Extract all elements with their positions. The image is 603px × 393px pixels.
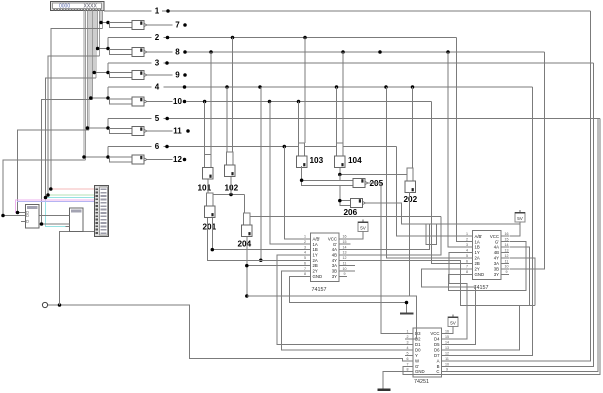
- wire to S204: [244, 195, 246, 214]
- wire display pin: [92, 10, 94, 99]
- wire net4 to U1 2A: [260, 87, 262, 260]
- wire net4 to S102: [226, 87, 228, 152]
- wire net5 to U3 C: [450, 119, 598, 372]
- U1 74157 pin 16 VCC: [339, 238, 347, 240]
- switch 206: [340, 201, 351, 206]
- junction net 2: [231, 36, 235, 40]
- svg-text:16: 16: [445, 329, 449, 333]
- svg-text:11: 11: [343, 261, 347, 265]
- svg-text:1Y: 1Y: [475, 250, 480, 255]
- wire green: [48, 194, 95, 196]
- junction: [405, 301, 409, 305]
- junction net 3: [165, 61, 169, 65]
- power +5V symbol: [358, 222, 368, 232]
- wire stub U1 G: [347, 243, 351, 245]
- U2 74157 pin 15 G': [501, 241, 509, 243]
- wire staircase: [3, 160, 86, 216]
- svg-text:4B: 4B: [494, 250, 499, 255]
- svg-text:1: 1: [407, 329, 409, 333]
- comparator A2: [70, 208, 84, 232]
- switch S10 body: [110, 99, 133, 104]
- junction net 4: [411, 85, 415, 89]
- switch 104: [337, 143, 343, 156]
- junction: [46, 193, 50, 197]
- svg-text:5V: 5V: [450, 321, 457, 326]
- wire net8 to U2 3B: [510, 52, 545, 269]
- wire display pin: [102, 10, 104, 28]
- svg-text:5V: 5V: [517, 216, 524, 221]
- wire display pin: [98, 10, 100, 56]
- svg-text:9: 9: [344, 272, 346, 276]
- switch S8 body: [110, 49, 133, 54]
- svg-text:4: 4: [407, 346, 409, 350]
- svg-text:A/B': A/B': [475, 234, 483, 239]
- svg-text:1Y: 1Y: [313, 253, 318, 258]
- junction: [300, 179, 304, 183]
- svg-text:9: 9: [175, 71, 180, 80]
- svg-text:14: 14: [505, 243, 509, 247]
- junction: [245, 264, 249, 268]
- junction net 8: [209, 50, 213, 54]
- wire bus to U3 D6: [450, 306, 520, 351]
- junction: [99, 21, 103, 25]
- U3 74251 pin 8 GND: [405, 371, 413, 373]
- wire S202 down: [409, 192, 411, 296]
- net 9 wire: [147, 74, 173, 76]
- U2 74157 pin 3 1B: [465, 246, 473, 248]
- U3 74251 pin 11 A: [442, 360, 450, 362]
- svg-text:1: 1: [304, 235, 306, 239]
- junction net 9: [183, 73, 187, 77]
- wire net10 to S101: [204, 102, 206, 155]
- svg-text:13: 13: [505, 248, 509, 252]
- U1 74157 pin 9 3Y: [339, 275, 347, 277]
- junction net 8: [446, 50, 450, 54]
- svg-text:2Y: 2Y: [313, 269, 318, 274]
- wire U1 4Y: [347, 260, 535, 305]
- switch S11 body: [110, 128, 133, 133]
- wire switch input: [94, 72, 109, 74]
- wire net8 to S104: [342, 52, 344, 143]
- junction net 8: [378, 50, 382, 54]
- junction net 4: [384, 85, 388, 89]
- svg-text:2Y: 2Y: [475, 267, 480, 272]
- wire net6 to U2 A/B: [397, 147, 465, 237]
- U2 74157 pin 12 4Y: [501, 257, 509, 259]
- U1 74157 pin 3 1B: [303, 249, 311, 251]
- net 5 left drop wire: [107, 119, 109, 129]
- junction net 2: [303, 36, 307, 40]
- svg-text:G': G': [333, 242, 337, 247]
- U1 74157 pin 1 A/B': [303, 238, 311, 240]
- junction: [40, 222, 44, 226]
- U1 74157 pin 11 3A: [339, 265, 347, 267]
- svg-text:11: 11: [445, 357, 449, 361]
- U3 74251 pin 7 G': [405, 366, 413, 368]
- switch 103: [299, 143, 305, 156]
- svg-text:6: 6: [407, 357, 409, 361]
- svg-text:4Y: 4Y: [494, 256, 499, 261]
- junction net 10: [268, 100, 272, 104]
- IC U3 74251 body: [413, 328, 442, 377]
- svg-text:15: 15: [505, 238, 509, 242]
- switch 204: [244, 213, 250, 225]
- svg-text:GND: GND: [415, 369, 425, 374]
- junction: [106, 126, 110, 130]
- svg-text:1A: 1A: [313, 242, 318, 247]
- U1 74157 pin 4 1Y: [303, 254, 311, 256]
- wire net10 to S103: [298, 102, 300, 144]
- svg-text:VCC: VCC: [490, 234, 499, 239]
- net 2 left drop wire: [107, 38, 109, 49]
- junction net 4: [335, 85, 339, 89]
- svg-text:GND: GND: [475, 272, 485, 277]
- ground U1: [400, 313, 414, 315]
- switch S9 body: [110, 72, 133, 77]
- wire U1 3A stub: [347, 265, 355, 267]
- svg-text:10: 10: [173, 97, 182, 106]
- wire net4 to S202: [412, 87, 414, 168]
- wire A1 to A2: [39, 223, 70, 225]
- svg-text:5: 5: [466, 254, 468, 258]
- wire display pin: [88, 10, 90, 130]
- wire staircase: [48, 56, 99, 195]
- wire red: [51, 188, 95, 190]
- switch 205: [302, 180, 354, 185]
- junction: [106, 155, 110, 159]
- U1 74157 pin 15 G': [339, 243, 347, 245]
- svg-text:1B: 1B: [475, 245, 480, 250]
- wire bus to A2: [3, 215, 21, 217]
- U1 74157 pin 2 1A: [303, 243, 311, 245]
- wire switch input: [84, 156, 110, 158]
- svg-text:2B: 2B: [475, 261, 480, 266]
- switch S7 body: [110, 22, 133, 27]
- svg-text:4A: 4A: [332, 247, 337, 252]
- svg-text:8: 8: [304, 272, 306, 276]
- hex display U10: [50, 1, 104, 10]
- U2 74157 pin 1 A/B': [465, 235, 473, 237]
- wire net5 outer to U3 G: [403, 119, 600, 375]
- wire 205 output: [368, 182, 380, 184]
- svg-text:12: 12: [173, 155, 182, 164]
- junction net 2: [166, 36, 170, 40]
- svg-text:4A: 4A: [494, 245, 499, 250]
- junction: [106, 96, 110, 100]
- wire U1 2B: [247, 265, 303, 267]
- U2 74157 pin 5 2A: [465, 257, 473, 259]
- pin header J1: [95, 186, 109, 237]
- svg-text:7: 7: [175, 21, 180, 30]
- net 7 wire: [147, 24, 173, 26]
- wire weave: [426, 224, 436, 245]
- wire U1 4B: [347, 217, 441, 255]
- net 5 wire: [108, 118, 152, 120]
- U1 74157 pin 14 4A: [339, 249, 347, 251]
- wire net8 to S101: [210, 52, 212, 155]
- wire U2 1Y to U3 D4: [449, 253, 467, 339]
- wire switch input: [101, 22, 110, 24]
- junction: [58, 303, 62, 307]
- svg-text:9: 9: [506, 270, 508, 274]
- wire display pin: [100, 10, 102, 22]
- svg-text:3Y: 3Y: [494, 272, 499, 277]
- junction: [44, 196, 48, 200]
- svg-text:3A: 3A: [494, 261, 499, 266]
- svg-text:3B: 3B: [332, 269, 337, 274]
- net 4 wire: [108, 86, 152, 88]
- switch 102: [227, 152, 233, 165]
- U2 74157 pin 10 3B: [501, 268, 509, 270]
- svg-text:10: 10: [445, 362, 449, 366]
- svg-text:9: 9: [446, 367, 448, 371]
- wire display pin: [83, 10, 85, 157]
- junction net 5: [165, 117, 169, 121]
- net 4 left drop wire: [107, 87, 109, 98]
- switch 201: [207, 193, 213, 206]
- wire S204 to U1 2B: [246, 237, 248, 297]
- svg-text:D0: D0: [415, 348, 421, 353]
- svg-text:2A: 2A: [313, 258, 318, 263]
- U1 74157 pin 7 2Y: [303, 270, 311, 272]
- terminal T1: [42, 302, 47, 307]
- U3 74251 pin 16 VCC: [442, 333, 450, 335]
- net 12 wire: [147, 159, 173, 161]
- wire 205 drop to U3 D3: [381, 183, 405, 334]
- wire net4 to U2 2A: [387, 87, 465, 258]
- svg-text:14: 14: [343, 245, 347, 249]
- svg-text:15: 15: [445, 335, 449, 339]
- U2 74157 pin 16 VCC: [501, 235, 509, 237]
- svg-text:7: 7: [407, 362, 409, 366]
- svg-text:A/B': A/B': [313, 236, 321, 241]
- wire net2 to S102: [232, 38, 234, 153]
- U2 74157 pin 6 2B: [465, 263, 473, 265]
- svg-text:4Y: 4Y: [332, 258, 337, 263]
- U3 74251 pin 4 D0: [405, 349, 413, 351]
- junction: [92, 71, 96, 75]
- svg-text:205: 205: [370, 179, 384, 188]
- wire net2 to U2 1A: [457, 38, 465, 242]
- svg-text:6: 6: [466, 259, 468, 263]
- svg-text:16: 16: [505, 232, 509, 236]
- wire U3 VCC: [442, 326, 454, 334]
- wire display pin: [93, 10, 95, 72]
- wire net3 to U3 B: [450, 63, 594, 367]
- wire display pin: [85, 10, 87, 160]
- svg-text:74251: 74251: [414, 379, 429, 385]
- svg-text:8: 8: [466, 270, 468, 274]
- svg-text:D3: D3: [415, 331, 421, 336]
- U1 74157 pin 10 3B: [339, 270, 347, 272]
- junction: [16, 211, 20, 215]
- U3 74251 pin 9 C: [442, 371, 450, 373]
- svg-text:D7: D7: [434, 353, 440, 358]
- wire net10 to U2 2B: [432, 102, 465, 264]
- net 3 wire: [108, 62, 152, 64]
- U3 74251 pin 10 B: [442, 366, 450, 368]
- junction: [49, 187, 53, 191]
- wire A1 to A2 second: [39, 215, 70, 217]
- wire S201 to U1 2A: [207, 218, 302, 260]
- U3 74251 pin 5 Y: [405, 355, 413, 357]
- wire magenta: [16, 200, 95, 213]
- junction net 8: [183, 50, 187, 54]
- switch S12 body: [110, 157, 133, 162]
- U2 74157 pin 2 1A: [465, 241, 473, 243]
- svg-text:0000: 0000: [59, 4, 70, 10]
- wire switch input: [87, 127, 109, 129]
- svg-text:1: 1: [466, 232, 468, 236]
- svg-text:104: 104: [348, 156, 362, 165]
- wire U2 VCC: [510, 222, 521, 237]
- U2 74157 pin 11 3A: [501, 263, 509, 265]
- junction net 4: [225, 85, 229, 89]
- wire 206 route: [366, 203, 520, 224]
- junction net 8: [341, 50, 345, 54]
- U1 74157 pin 6 2B: [303, 265, 311, 267]
- wire S204 to U3 D2: [247, 296, 417, 339]
- wire U1 GND: [290, 276, 407, 313]
- switch 101: [205, 155, 211, 168]
- junction: [338, 199, 342, 203]
- svg-text:2: 2: [466, 238, 468, 242]
- U3 74251 pin 13 D6: [442, 349, 450, 351]
- svg-text:204: 204: [238, 240, 252, 249]
- wire staircase: [18, 130, 90, 213]
- svg-text:2: 2: [155, 33, 160, 42]
- U2 74157 pin 14 4A: [501, 246, 509, 248]
- svg-text:3Y: 3Y: [332, 274, 337, 279]
- svg-text:2B: 2B: [313, 263, 318, 268]
- wire U1 VCC: [347, 231, 363, 239]
- wire cyan: [46, 198, 95, 227]
- svg-text:2A: 2A: [475, 256, 480, 261]
- wire S101 to S201: [207, 180, 209, 194]
- svg-text:XXXX: XXXX: [84, 4, 98, 10]
- junction: [259, 259, 263, 263]
- U3 74251 pin 15 D4: [442, 338, 450, 340]
- svg-text:6: 6: [155, 142, 160, 151]
- svg-text:6: 6: [304, 261, 306, 265]
- wire switch input: [98, 48, 110, 50]
- svg-text:3: 3: [155, 59, 160, 68]
- net 1 wire: [104, 10, 152, 12]
- svg-text:VCC: VCC: [328, 236, 337, 241]
- junction: [245, 294, 249, 298]
- net 6 left drop wire: [107, 147, 109, 158]
- switch 202: [407, 168, 413, 181]
- svg-text:D5: D5: [434, 342, 440, 347]
- svg-text:3: 3: [407, 340, 409, 344]
- junction net 12: [183, 158, 187, 162]
- svg-text:5: 5: [304, 256, 306, 260]
- wire staircase: [46, 78, 96, 198]
- wire S201 branch to S204: [208, 194, 245, 196]
- wire staircase: [42, 100, 93, 225]
- junction: [106, 21, 110, 25]
- U3 74251 pin 1 D3: [405, 333, 413, 335]
- wire to A1 in: [18, 212, 22, 214]
- wire U2 4A: [510, 247, 530, 305]
- svg-text:12: 12: [505, 254, 509, 258]
- svg-text:8: 8: [175, 48, 180, 57]
- wire net6 trunk: [250, 216, 441, 218]
- junction: [86, 126, 90, 130]
- wire S102 down: [230, 177, 232, 195]
- junction: [106, 71, 110, 75]
- net 8 wire: [147, 51, 173, 53]
- wire S104 to S202: [340, 168, 407, 175]
- wire U1 3B stub: [347, 270, 355, 272]
- svg-text:7: 7: [466, 265, 468, 269]
- svg-text:14: 14: [445, 340, 449, 344]
- svg-text:7: 7: [304, 267, 306, 271]
- wire S201 to U1 1B: [212, 218, 302, 250]
- comparator A1: [26, 205, 40, 229]
- svg-text:11: 11: [505, 259, 509, 263]
- U1 74157 pin 5 2A: [303, 259, 311, 261]
- svg-text:11: 11: [173, 127, 182, 136]
- svg-text:A: A: [437, 359, 440, 364]
- U2 74157 pin 9 3Y: [501, 273, 509, 275]
- junction: [106, 47, 110, 51]
- svg-text:8: 8: [407, 367, 409, 371]
- wire terminal to U3 W: [48, 305, 406, 361]
- U3 74251 pin 14 D5: [442, 344, 450, 346]
- junction net 10: [183, 100, 187, 104]
- wire S104 down: [339, 175, 341, 201]
- net 6 wire: [108, 146, 152, 148]
- junction net 6: [283, 145, 287, 149]
- svg-text:12: 12: [445, 351, 449, 355]
- U1 74157 pin 12 4Y: [339, 259, 347, 261]
- wire switch input: [91, 97, 110, 99]
- junction net 4: [258, 85, 262, 89]
- junction: [89, 96, 93, 100]
- U1 74157 pin 13 4B: [339, 254, 347, 256]
- U3 74251 pin 2 D2: [405, 338, 413, 340]
- U3 74251 pin 3 D1: [405, 344, 413, 346]
- svg-text:102: 102: [225, 184, 239, 193]
- svg-text:C: C: [436, 369, 439, 374]
- svg-text:1: 1: [155, 7, 160, 16]
- wire terminal up to header: [60, 232, 95, 306]
- svg-text:2: 2: [304, 240, 306, 244]
- wire U2 GND loop: [449, 242, 527, 291]
- wire net1 to U3 A: [450, 11, 591, 361]
- svg-text:5: 5: [155, 114, 160, 123]
- svg-text:12: 12: [343, 256, 347, 260]
- svg-text:D1: D1: [415, 342, 421, 347]
- wire display pin: [86, 10, 88, 128]
- IC U2 74157 body: [473, 231, 502, 280]
- U2 74157 pin 13 4B: [501, 252, 509, 254]
- junction: [82, 155, 86, 159]
- svg-text:G': G': [495, 239, 499, 244]
- wire display pin: [97, 10, 99, 48]
- junction net 10: [203, 100, 207, 104]
- wire S103 to 205: [301, 166, 303, 180]
- svg-text:13: 13: [343, 251, 347, 255]
- svg-text:206: 206: [344, 208, 358, 217]
- junction: [1, 214, 5, 218]
- svg-text:13: 13: [445, 346, 449, 350]
- svg-text:4: 4: [155, 83, 160, 92]
- svg-text:3: 3: [304, 245, 306, 249]
- wire U1 4A: [347, 224, 429, 250]
- svg-text:1B: 1B: [313, 247, 318, 252]
